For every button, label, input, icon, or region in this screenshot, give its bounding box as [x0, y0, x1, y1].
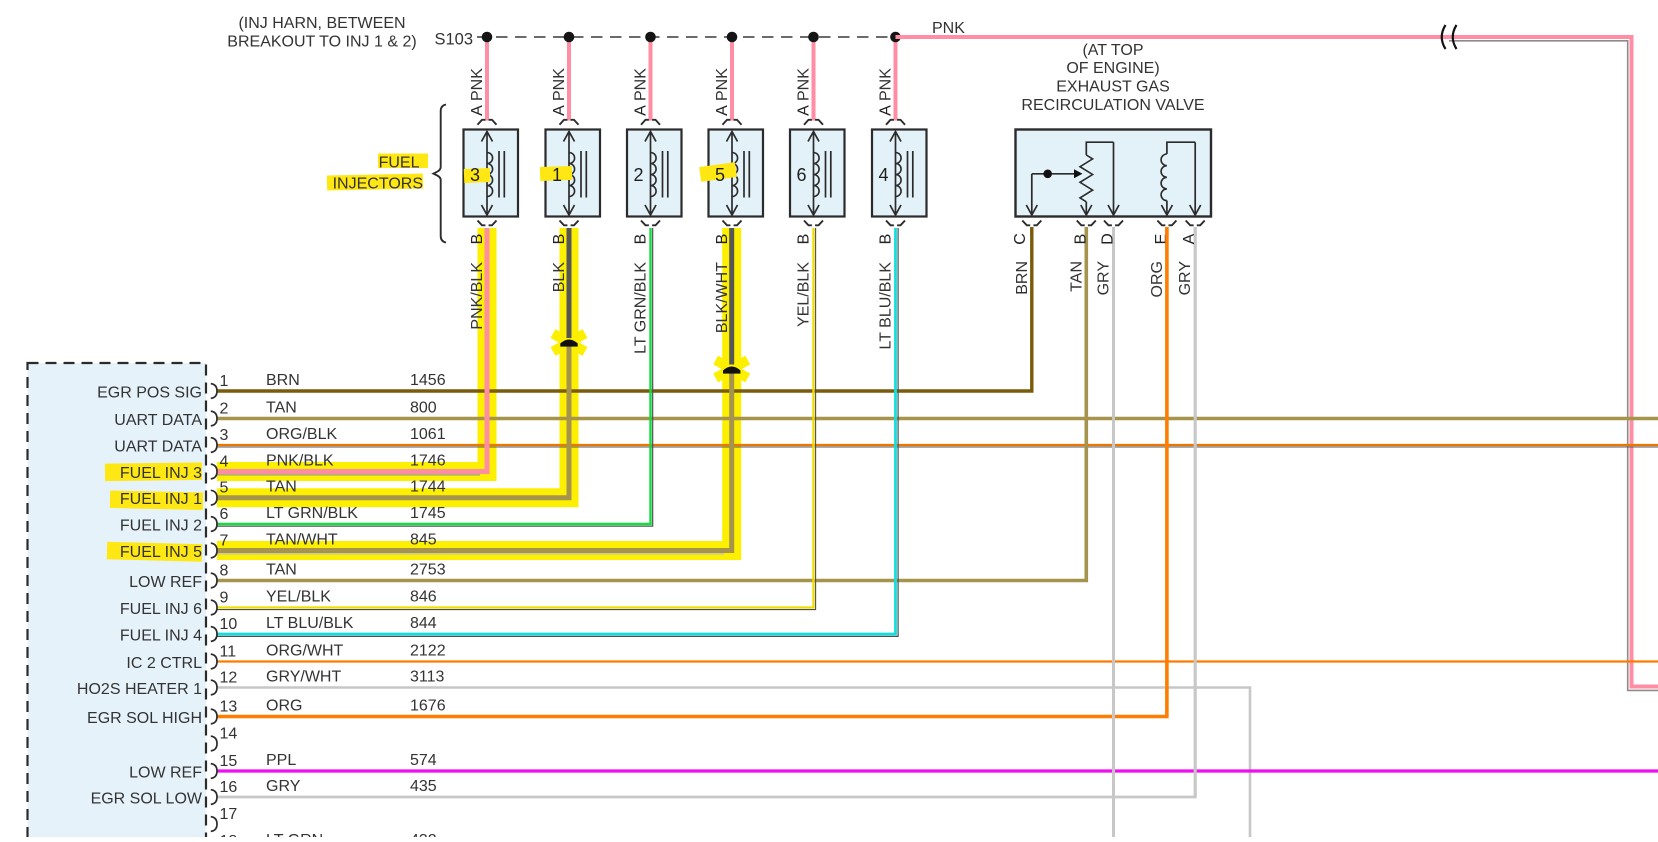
- svg-text:PNK: PNK: [633, 68, 650, 101]
- svg-text:1456: 1456: [410, 372, 446, 389]
- svg-text:FUEL INJ 5: FUEL INJ 5: [120, 544, 202, 561]
- svg-text:GRY: GRY: [1177, 261, 1194, 296]
- svg-text:844: 844: [410, 615, 437, 632]
- svg-text:TAN: TAN: [266, 479, 297, 496]
- svg-text:FUEL INJ 3: FUEL INJ 3: [120, 465, 202, 482]
- svg-text:GRY: GRY: [1096, 261, 1113, 296]
- svg-text:IC 2 CTRL: IC 2 CTRL: [126, 655, 202, 672]
- svg-text:PNK: PNK: [551, 68, 568, 101]
- svg-text:6: 6: [220, 506, 229, 523]
- svg-text:FUEL INJ 1: FUEL INJ 1: [120, 491, 202, 508]
- svg-text:A: A: [469, 105, 486, 116]
- svg-text:8: 8: [220, 563, 229, 580]
- svg-text:1676: 1676: [410, 698, 446, 715]
- svg-text:A: A: [878, 105, 895, 116]
- svg-text:BLK: BLK: [551, 262, 568, 293]
- svg-text:(AT TOP: (AT TOP: [1082, 42, 1143, 59]
- svg-text:(INJ HARN, BETWEEN: (INJ HARN, BETWEEN: [238, 15, 405, 32]
- svg-text:10: 10: [220, 616, 238, 633]
- svg-text:3113: 3113: [410, 669, 445, 686]
- svg-text:A: A: [714, 105, 731, 116]
- svg-text:574: 574: [410, 752, 437, 769]
- svg-text:PNK: PNK: [714, 68, 731, 101]
- svg-text:15: 15: [220, 753, 238, 770]
- svg-text:FUEL INJ 2: FUEL INJ 2: [120, 518, 202, 535]
- svg-text:INJECTORS: INJECTORS: [333, 176, 423, 193]
- svg-text:EGR SOL HIGH: EGR SOL HIGH: [87, 710, 202, 727]
- svg-text:13: 13: [220, 699, 238, 716]
- svg-text:1744: 1744: [410, 479, 446, 496]
- svg-text:ORG/BLK: ORG/BLK: [266, 426, 337, 443]
- svg-text:2122: 2122: [410, 643, 446, 660]
- svg-text:PNK: PNK: [932, 20, 965, 37]
- svg-text:A: A: [796, 105, 813, 116]
- svg-text:PNK/BLK: PNK/BLK: [469, 262, 486, 330]
- svg-text:12: 12: [220, 670, 238, 687]
- svg-text:RECIRCULATION VALVE: RECIRCULATION VALVE: [1021, 97, 1204, 114]
- svg-text:PPL: PPL: [266, 752, 296, 769]
- svg-text:17: 17: [220, 806, 238, 823]
- svg-text:5: 5: [715, 165, 725, 185]
- svg-text:3: 3: [220, 427, 229, 444]
- svg-text:A: A: [633, 105, 650, 116]
- svg-text:2753: 2753: [410, 562, 446, 579]
- svg-text:LT BLU/BLK: LT BLU/BLK: [266, 615, 354, 632]
- svg-text:ORG: ORG: [1149, 261, 1166, 297]
- svg-text:BLK/WHT: BLK/WHT: [714, 262, 731, 333]
- svg-text:S103: S103: [435, 31, 474, 49]
- svg-text:4: 4: [878, 165, 888, 185]
- svg-text:B: B: [714, 234, 731, 245]
- svg-text:LT GRN: LT GRN: [266, 832, 323, 837]
- svg-text:BRN: BRN: [1014, 261, 1031, 295]
- svg-text:2: 2: [220, 401, 229, 418]
- svg-text:14: 14: [220, 726, 238, 743]
- svg-text:9: 9: [220, 590, 229, 607]
- svg-text:UART DATA: UART DATA: [114, 412, 202, 429]
- svg-text:1745: 1745: [410, 505, 446, 522]
- svg-text:1: 1: [220, 373, 229, 390]
- svg-text:11: 11: [220, 644, 237, 661]
- svg-text:PNK/BLK: PNK/BLK: [266, 453, 334, 470]
- svg-text:846: 846: [410, 589, 437, 606]
- svg-text:5: 5: [220, 480, 229, 497]
- svg-text:BREAKOUT TO INJ 1 & 2): BREAKOUT TO INJ 1 & 2): [227, 34, 416, 51]
- svg-text:1061: 1061: [410, 426, 446, 443]
- svg-text:PNK: PNK: [469, 68, 486, 101]
- svg-text:1746: 1746: [410, 453, 446, 470]
- svg-text:OF ENGINE): OF ENGINE): [1066, 60, 1159, 77]
- svg-text:3: 3: [470, 165, 480, 185]
- svg-text:B: B: [878, 234, 895, 245]
- svg-text:ORG/WHT: ORG/WHT: [266, 643, 344, 660]
- svg-text:B: B: [796, 234, 813, 245]
- svg-text:A: A: [551, 105, 568, 116]
- svg-text:EGR SOL LOW: EGR SOL LOW: [91, 791, 203, 808]
- svg-text:LT GRN/BLK: LT GRN/BLK: [633, 262, 650, 354]
- svg-text:ORG: ORG: [266, 698, 302, 715]
- svg-text:PNK: PNK: [878, 68, 895, 101]
- svg-text:UART DATA: UART DATA: [114, 439, 202, 456]
- svg-text:B: B: [633, 234, 650, 245]
- svg-text:GRY: GRY: [266, 778, 301, 795]
- svg-text:TAN/WHT: TAN/WHT: [266, 532, 338, 549]
- svg-text:GRY/WHT: GRY/WHT: [266, 669, 341, 686]
- svg-text:TAN: TAN: [266, 400, 297, 417]
- svg-text:HO2S HEATER 1: HO2S HEATER 1: [77, 681, 202, 698]
- svg-text:LOW REF: LOW REF: [129, 765, 202, 782]
- svg-text:C: C: [1012, 233, 1029, 245]
- svg-text:EGR POS SIG: EGR POS SIG: [97, 385, 202, 402]
- svg-text:TAN: TAN: [1068, 261, 1085, 292]
- svg-text:B: B: [469, 234, 486, 245]
- svg-text:LT GRN/BLK: LT GRN/BLK: [266, 505, 358, 522]
- svg-text:2: 2: [633, 165, 643, 185]
- svg-text:1: 1: [552, 165, 562, 185]
- svg-text:YEL/BLK: YEL/BLK: [266, 589, 331, 606]
- svg-text:FUEL INJ 4: FUEL INJ 4: [120, 628, 202, 645]
- svg-text:LT BLU/BLK: LT BLU/BLK: [878, 262, 895, 350]
- svg-text:18: 18: [220, 833, 238, 837]
- svg-text:6: 6: [796, 165, 806, 185]
- svg-text:PNK: PNK: [796, 68, 813, 101]
- svg-text:BRN: BRN: [266, 372, 300, 389]
- svg-text:16: 16: [220, 779, 238, 796]
- svg-text:435: 435: [410, 778, 437, 795]
- svg-text:FUEL INJ 6: FUEL INJ 6: [120, 601, 202, 618]
- svg-text:800: 800: [410, 400, 437, 417]
- svg-text:432: 432: [410, 832, 437, 837]
- svg-text:LOW REF: LOW REF: [129, 574, 202, 591]
- svg-text:FUEL: FUEL: [379, 155, 420, 172]
- svg-text:YEL/BLK: YEL/BLK: [796, 262, 813, 327]
- svg-text:B: B: [551, 234, 568, 245]
- svg-text:TAN: TAN: [266, 562, 297, 579]
- svg-text:EXHAUST GAS: EXHAUST GAS: [1056, 79, 1170, 96]
- svg-text:4: 4: [220, 454, 229, 471]
- svg-text:845: 845: [410, 532, 437, 549]
- svg-text:7: 7: [220, 533, 229, 550]
